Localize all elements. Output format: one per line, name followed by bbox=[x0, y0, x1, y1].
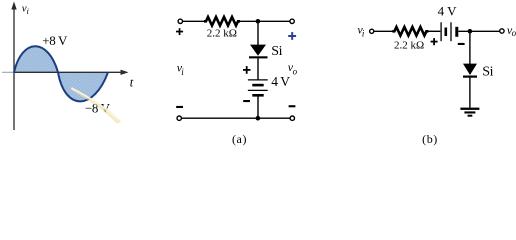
svg-text:(a): (a) bbox=[232, 132, 247, 146]
svg-text:o: o bbox=[512, 28, 516, 38]
svg-text:Si: Si bbox=[482, 65, 493, 80]
svg-text:2.2 kΩ: 2.2 kΩ bbox=[394, 40, 424, 52]
svg-text:o: o bbox=[293, 67, 298, 77]
svg-text:4 V: 4 V bbox=[271, 74, 290, 89]
svg-text:i: i bbox=[362, 28, 365, 38]
svg-text:4 V: 4 V bbox=[438, 4, 458, 19]
svg-text:Si: Si bbox=[271, 44, 282, 59]
svg-text:+8 V: +8 V bbox=[42, 33, 68, 48]
svg-text:i: i bbox=[181, 67, 184, 77]
svg-text:i: i bbox=[27, 6, 30, 16]
svg-text:2.2 kΩ: 2.2 kΩ bbox=[207, 28, 237, 40]
svg-text:(b): (b) bbox=[422, 132, 438, 146]
svg-text:t: t bbox=[130, 76, 134, 90]
